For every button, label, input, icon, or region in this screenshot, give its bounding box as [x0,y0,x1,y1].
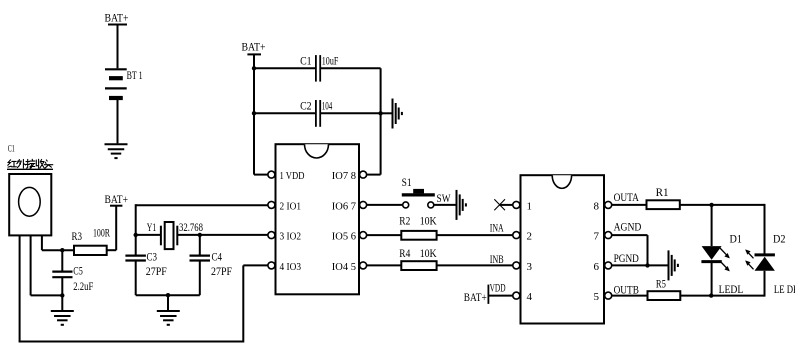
node junction crystal right / C4 [198,233,202,237]
wire to ground (crystal) [167,295,169,310]
svg-text:D2: D2 [773,234,786,246]
wire right vertical down to U1 pin 8 [367,68,381,174]
wire BAT+ bar to battery top [117,26,119,69]
LED D2 emission arrows [745,249,753,269]
svg-text:27PF: 27PF [211,266,232,278]
node junction C2 / ground [378,111,382,115]
svg-text:SW: SW [437,193,451,205]
power symbol VDD at U2 pin 4 [488,285,512,304]
svg-text:C3: C3 [147,251,158,263]
wire battery bottom to ground [117,100,119,143]
svg-text:S1: S1 [402,177,412,189]
svg-text:R3: R3 [72,231,83,243]
U2 pin 2 circle [513,232,520,239]
power bar BAT+ (top) [247,53,261,55]
wire receiver leg 1 (left) down to bottom rail [19,235,21,341]
svg-text:IO6 7: IO6 7 [332,201,357,213]
U1 pin 1 circle [268,171,275,178]
node junction BAT+ / C2 wire [252,111,256,115]
node junction top rail / D1 [709,203,713,207]
wire U1 pin 6 to R2 [367,234,403,236]
wire U2 pin 8 OUTA to R1 [612,204,648,206]
wire crystal left vertical (upper) [135,204,137,255]
svg-text:C1: C1 [300,56,312,68]
wire receiver leg 3 (right) down [41,235,43,250]
power bar for BAT+ (battery) [108,24,127,26]
node junction C5 bottom / leg2 / ground [60,293,64,297]
wire U1 pin 7 to switch S1 [367,204,403,206]
ground (decoupling, right-facing) [393,99,402,129]
svg-text:AGND: AGND [614,222,642,234]
wire D1 cathode to bottom rail [711,263,713,296]
wire switch to ground [434,204,457,206]
wire C2 left segment [254,112,315,114]
capacitor C5 [52,250,72,295]
LED D1 emission arrows [720,248,730,272]
svg-text:LEDL: LEDL [719,284,744,296]
wire riser up to BAT+ [115,206,117,251]
U2 pin 6 circle [605,262,612,269]
wire U2 pin 5 OUTB to R5 [612,295,648,297]
svg-text:Y1: Y1 [147,222,157,234]
U2 pin 5 circle [605,292,612,299]
svg-text:PGND: PGND [614,253,639,265]
U2 pin 4 circle [513,292,520,299]
capacitor C2 (104) [316,100,320,127]
svg-text:2: 2 [527,231,533,243]
op-amp U1 microcontroller body [276,144,360,294]
capacitor C1 (10uF) [316,55,320,82]
svg-text:8: 8 [594,201,600,213]
wire R4 to U2 pin 3 INB [437,264,513,266]
capacitor C4 [190,235,211,295]
svg-text:5: 5 [594,291,600,303]
resistor R4 [401,261,436,270]
wire R1 to LED top rail [680,204,765,206]
wire crystal to C4 junction and U1 pin 3 IO2 [177,234,267,236]
svg-text:LE DR: LE DR [774,284,795,296]
svg-text:2 IO1: 2 IO1 [280,201,302,213]
U2 pin 1 circle [513,201,520,208]
U1 pin 6 circle [360,232,367,239]
svg-text:BAT+: BAT+ [105,11,129,25]
LED D1 (down-pointing) [701,246,721,262]
svg-text:32.768: 32.768 [179,222,203,234]
ground (battery) [105,144,128,158]
node junction bottom rail / D1 [709,293,713,297]
ground (C5) [51,311,74,325]
no-connect X at U2 pin 1 [494,199,505,210]
wire receiver leg 3 to R3 [42,249,74,251]
ground (switch, right-facing) [457,190,466,220]
wire C1 right segment [321,67,381,69]
svg-text:IO5 6: IO5 6 [332,231,357,243]
wire C1 left segment [254,67,315,69]
svg-text:4: 4 [527,291,533,303]
svg-text:3 IO2: 3 IO2 [280,231,302,243]
infrared receiver C1 body [9,174,51,235]
wire R2 to U2 pin 2 INA [437,234,513,236]
svg-text:R4: R4 [399,248,410,260]
wire D2 anode to bottom rail [764,271,766,297]
svg-text:R1: R1 [656,187,669,199]
wire D1 anode from top rail [711,205,713,246]
svg-text:6: 6 [594,261,600,273]
svg-text:3: 3 [527,261,533,273]
wire crystal bottom rail [136,294,200,296]
resistor R2 [401,231,436,240]
node junction R3 input / C5 top [60,248,64,252]
svg-text:27PF: 27PF [146,266,167,278]
svg-text:BT 1: BT 1 [127,68,143,82]
U2 pin 7 circle [605,232,612,239]
svg-text:100R: 100R [93,228,110,240]
wire C2 right segment [321,112,381,114]
wire R5 to LED bottom rail [680,295,764,297]
svg-text:OUTB: OUTB [614,285,640,297]
svg-text:INB: INB [490,254,504,266]
node junction crystal left [134,233,138,237]
svg-text:R5: R5 [656,279,666,291]
wire receiver leg 2 to C5 bottom junction [31,294,63,296]
U1 pin 3 circle [268,232,275,239]
U1 pin 5 circle [360,262,367,269]
wire bottom rail from receiver to U1 pin 4 [19,265,268,342]
svg-text:C5: C5 [73,266,83,278]
switch S1 pushbutton [402,189,435,208]
node junction crystal ground [166,293,170,297]
U1 pin 8 circle [360,171,367,178]
LED D2 (up-pointing) [755,255,775,271]
wire top rail down to D2 cathode [764,204,766,254]
svg-text:R2: R2 [399,216,410,228]
svg-text:D1: D1 [730,234,743,246]
svg-text:1 VDD: 1 VDD [280,170,305,182]
ground (PGND, right-facing) [669,250,678,280]
underline of Chinese label [7,168,53,170]
svg-text:IO7 8: IO7 8 [332,170,357,182]
svg-text:104: 104 [322,101,333,113]
resistor R1 [647,200,680,209]
resistor R5 [648,291,681,300]
battery BT1 [105,69,127,98]
wire BAT+ down to U1 pin 1 [254,54,268,174]
capacitor C3 [125,256,145,296]
U2 pin 3 circle [513,262,520,269]
wire U2 pin 6 PGND to ground [612,264,669,266]
svg-text:2.2uF: 2.2uF [73,281,93,293]
U1 pin 2 circle [268,201,275,208]
svg-text:7: 7 [594,231,600,243]
wire junction to crystal Y1 [136,234,161,236]
resistor R3 [74,246,107,255]
label infrared receiver Chinese text with underline [8,159,53,168]
U1 pin 7 circle [360,201,367,208]
wire to ground (decoupling) [381,112,393,114]
node junction AGND / PGND [645,263,649,267]
wire U2 pin 7 AGND [612,235,648,265]
svg-text:IO4 5: IO4 5 [332,261,357,273]
wire crystal top rail to U1 pin 2 IO1 [136,204,268,206]
svg-text:10K: 10K [420,248,438,260]
U2 pin 8 circle [605,201,612,208]
svg-text:10K: 10K [420,216,438,228]
svg-text:INA: INA [490,223,504,235]
svg-text:C2: C2 [300,101,312,113]
svg-text:BAT+: BAT+ [242,39,266,53]
svg-text:4 IO3: 4 IO3 [280,261,302,273]
svg-text:C4: C4 [212,251,223,263]
svg-text:VDD: VDD [490,283,506,295]
wire R3 right to BAT+ riser [107,249,117,251]
svg-text:BAT+: BAT+ [105,192,129,206]
svg-text:1: 1 [527,201,533,213]
wire U1 pin 5 to R4 [367,264,403,266]
wire receiver leg 2 (middle) down [30,235,32,295]
svg-text:10uF: 10uF [322,56,339,68]
wire C5 junction to ground [61,295,63,310]
svg-text:C1: C1 [8,145,15,155]
U1 pin 4 circle [268,262,275,269]
crystal Y1 [161,222,177,249]
svg-text:OUTA: OUTA [614,192,640,204]
wire X to U2 pin 1 [500,204,513,206]
op-amp U2 driver body [521,175,605,323]
svg-text:BAT+: BAT+ [464,290,487,304]
node junction BAT+ / C1 wire [252,66,256,70]
power bar BAT+ (above R3) [110,205,122,207]
ground (crystal) [157,311,180,325]
